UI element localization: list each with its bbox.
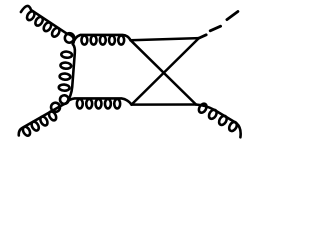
quark line top edge TL-TR [131,38,199,40]
gluon g3 rings [81,36,87,45]
gluon g1 strand (incoming, upper-left) [21,6,74,44]
gluon g1 rings [26,10,36,21]
gluon g6 rings [197,102,208,114]
gluon g5 strand (V2 to box BL) [67,98,132,104]
quark line diagonal BL-TR [132,38,199,105]
gluon g2 rings [61,51,72,58]
gluon g4 end curl at V2 [49,101,61,113]
gluon g1 end curl at V1 [63,31,76,44]
gluon g6 strand (box BR, outgoing) [196,105,241,138]
dashed scalar line (outgoing, upper-right) [199,12,238,39]
gluon g4 rings [21,126,31,137]
quark line bottom edge BL-BR [132,103,197,106]
quark line diagonal TL-BR [131,40,197,104]
Feynman diagram: gg -> scalar + gluon via crossed quark box [0,0,260,173]
gluon g2 strand (V1 to V2) [67,44,75,103]
gluon g5 rings [77,99,83,108]
gluon g2 end curl at V2 [60,95,69,104]
gluon g3 strand (V1 to box TL) [73,35,131,44]
gluon g4 strand (incoming, lower-left) [19,103,67,136]
